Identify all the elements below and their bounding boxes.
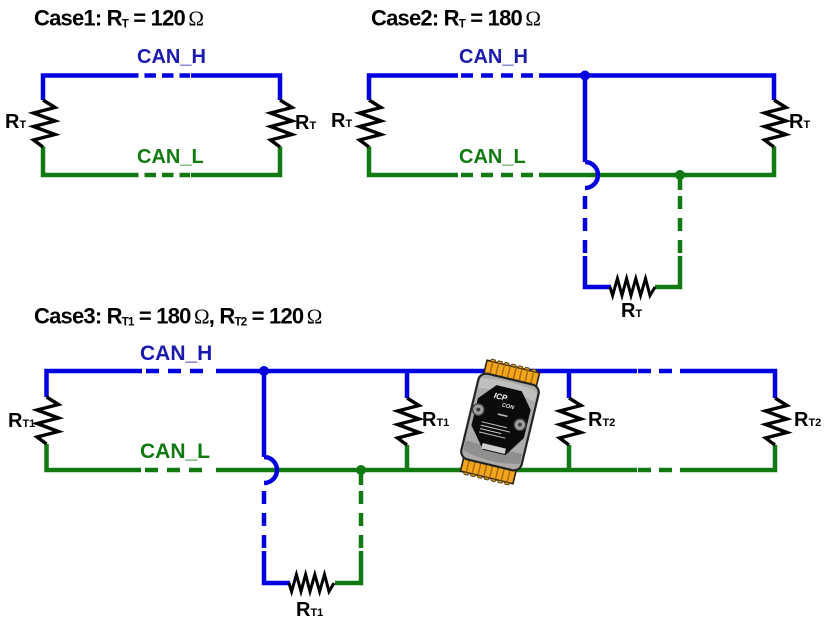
wire CAN_H case1 right solid [191, 76, 280, 101]
wire CAN_L case2 left solid [369, 147, 458, 176]
module part label strip [481, 443, 506, 454]
wire blue drop dashed (case3) [262, 491, 267, 553]
resistor RT2 case3 right [766, 398, 788, 445]
svg-text:RT1: RT1 [296, 599, 323, 621]
wire blue hop over CAN_L (case2) [585, 162, 598, 188]
svg-text:RT2: RT2 [794, 409, 821, 431]
wire blue drop bottom corner (case2) [585, 256, 611, 287]
wire green stub mid resistor2 (case3) [567, 445, 572, 470]
wire CAN_H case2 right solid [539, 76, 774, 101]
wire blue drop solid (case3) [262, 371, 267, 457]
module ICP DAS CAN device [456, 357, 544, 487]
resistor RT1 case3 middle [398, 398, 420, 445]
module body bottom shading [462, 441, 522, 468]
wire CAN_L case3 right dashed [638, 468, 688, 473]
svg-text:RT: RT [5, 111, 26, 133]
svg-text:RT: RT [295, 112, 316, 134]
resistor RT1 case3 bottom [289, 575, 334, 592]
wire CAN_H case3 left solid [47, 371, 143, 397]
wire CAN_L case3 middle solid [216, 468, 637, 473]
wire CAN_H case1 left solid [43, 76, 127, 101]
resistor RT2 case3 middle [560, 398, 582, 445]
svg-text:RT: RT [621, 300, 642, 322]
wire blue stub mid resistor2 (case3) [567, 371, 572, 398]
svg-text:Case1: RT = 120 Ω: Case1: RT = 120 Ω [34, 6, 203, 31]
wire green drop stub (case3) [359, 470, 364, 485]
junction node on CAN_L case2 [675, 170, 685, 180]
resistor RT case2 left [360, 100, 382, 147]
wire CAN_L case1 right solid [191, 147, 280, 176]
module top connector [484, 358, 540, 386]
module body top highlight [478, 375, 537, 401]
resistor RT case2 bottom [610, 279, 655, 296]
wire blue drop dashed (case2) [583, 196, 588, 258]
resistor RT case1 left [34, 100, 56, 147]
resistor RT1 case3 left [37, 397, 59, 444]
svg-text:RT1: RT1 [8, 410, 35, 432]
svg-text:Case2: RT = 180 Ω: Case2: RT = 180 Ω [371, 6, 540, 31]
svg-text:CAN_H: CAN_H [140, 342, 212, 365]
module bottom connector [460, 458, 516, 486]
wire CAN_H case1 middle dashed [127, 73, 190, 78]
wire blue stub mid resistor1 (case3) [405, 371, 410, 398]
wire CAN_L case1 left solid [43, 147, 127, 176]
junction node on CAN_H case3 [259, 366, 269, 376]
module body [460, 372, 541, 472]
wire green drop stub (case2) [678, 175, 683, 190]
wire CAN_L case3 right solid [688, 445, 775, 470]
module small text lines [479, 422, 511, 439]
module black label octagon [467, 382, 535, 459]
resistor RT case1 right [271, 100, 293, 147]
wire CAN_H case3 right solid [688, 371, 775, 398]
wire CAN_H case2 middle dashed [461, 73, 539, 78]
wire green drop bottom corner (case2) [655, 256, 680, 287]
svg-text:RT: RT [331, 110, 352, 132]
svg-text:CAN_L: CAN_L [459, 146, 526, 168]
wire blue drop solid (case2) [583, 76, 588, 163]
svg-text:CAN_H: CAN_H [459, 46, 528, 68]
junction node on CAN_H case2 [580, 71, 590, 81]
module screw left [471, 403, 485, 417]
wire CAN_H case2 left solid [369, 76, 458, 101]
wire CAN_L case1 middle dashed [127, 173, 190, 178]
wire CAN_H case3 middle solid [216, 369, 637, 374]
wire CAN_L case3 left dashed [145, 468, 211, 473]
module screw right [513, 418, 527, 432]
svg-text:RT2: RT2 [588, 409, 615, 431]
svg-text:RT: RT [789, 111, 810, 133]
wire CAN_L case3 left solid [47, 444, 142, 470]
svg-text:CAN_L: CAN_L [140, 440, 210, 463]
wire CAN_H case3 right dashed [638, 369, 688, 374]
wire blue hop over CAN_L (case3) [264, 457, 277, 483]
svg-text:CAN_L: CAN_L [137, 146, 204, 168]
resistor RT case2 right [765, 100, 787, 147]
wire green drop bottom corner (case3) [335, 551, 361, 583]
wire green stub mid resistor1 (case3) [405, 445, 410, 470]
wire green drop dashed (case3) [359, 491, 364, 553]
wire CAN_L case2 middle dashed [461, 173, 539, 178]
svg-text:Case3: RT1 = 180 Ω, RT2 = 120: Case3: RT1 = 180 Ω, RT2 = 120 Ω [34, 304, 322, 329]
module part number mark [498, 413, 508, 417]
wire green drop dashed (case2) [678, 196, 683, 258]
wire blue drop bottom corner (case3) [264, 551, 290, 583]
junction node on CAN_L case3 [356, 465, 366, 475]
svg-text:CAN_H: CAN_H [137, 46, 206, 68]
wire CAN_H case3 left dashed [146, 369, 212, 374]
svg-text:RT1: RT1 [422, 409, 449, 431]
wire CAN_L case2 right solid [539, 147, 774, 176]
